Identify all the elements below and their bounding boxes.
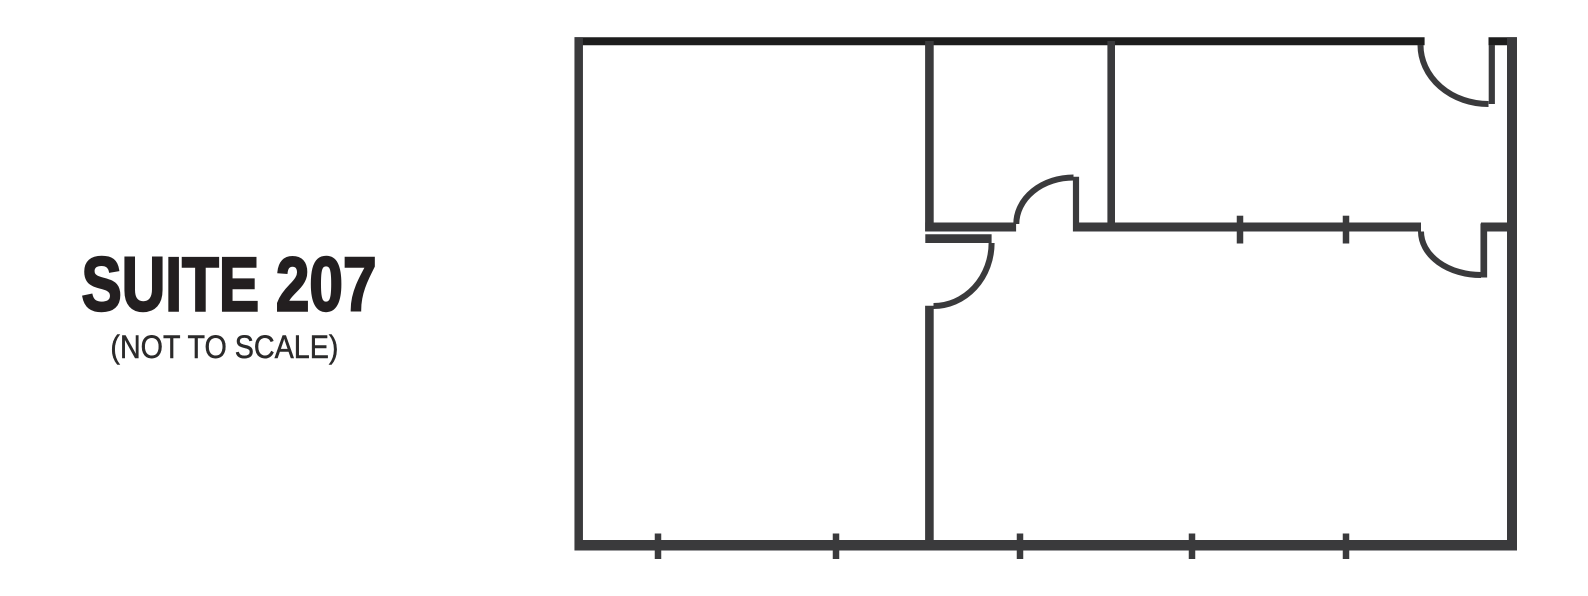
door leaf C (top-right exterior door)	[1489, 45, 1495, 104]
door leaf B (middle-right door)	[1480, 224, 1487, 278]
tick mark bottom 2	[833, 534, 840, 560]
svg-text:SUITE 207: SUITE 207	[82, 243, 377, 328]
svg-text:(NOT TO SCALE): (NOT TO SCALE)	[110, 329, 338, 365]
wire top wall left segment	[575, 37, 1425, 45]
tick mark bottom 5	[1343, 534, 1350, 560]
tick mark midwall 1	[1237, 216, 1244, 244]
door arc B	[1421, 232, 1481, 276]
door arc A	[1016, 178, 1073, 225]
tick mark midwall 2	[1343, 216, 1350, 244]
door arc C	[1421, 45, 1489, 104]
wire left wall	[574, 37, 583, 550]
wire bottom wall	[575, 540, 1518, 551]
tick mark bottom 1	[655, 534, 662, 560]
wire middle horizontal wall segment c	[1481, 223, 1517, 232]
wire top wall right segment	[1489, 37, 1517, 45]
door leaf D (bottom-left door in vertical wall)	[925, 234, 991, 243]
tick mark bottom 4	[1189, 534, 1196, 560]
wire middle horizontal wall segment b	[1073, 223, 1421, 232]
tick mark bottom 3	[1017, 534, 1024, 560]
wire interior vertical wall 1 lower segment	[925, 306, 934, 545]
door arc D	[934, 243, 992, 306]
wire interior vertical wall 2	[1107, 41, 1115, 232]
wire interior vertical wall 1 upper segment	[925, 41, 934, 231]
wire right wall	[1507, 37, 1517, 550]
door leaf A (top-middle room)	[1073, 177, 1079, 232]
wire middle horizontal wall segment a	[925, 223, 1016, 232]
